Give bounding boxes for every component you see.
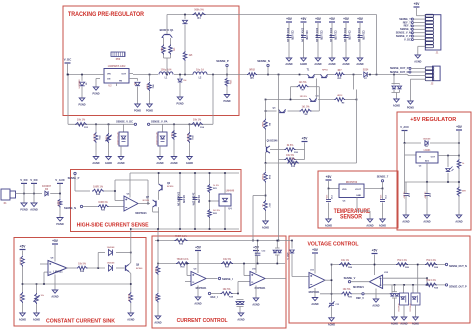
ground [328, 318, 335, 327]
diode D14 [290, 241, 295, 277]
ground [311, 298, 318, 307]
wire [417, 265, 419, 294]
svg-text:AGND: AGND [412, 323, 419, 326]
svg-text:C10 X7R: C10 X7R [291, 30, 293, 40]
svg-text:REF_V: REF_V [356, 297, 364, 300]
svg-text:C13 X7R: C13 X7R [334, 30, 336, 40]
junction [290, 99, 292, 101]
wire [130, 229, 132, 238]
svg-text:100R 1%: 100R 1% [93, 185, 104, 188]
ground [402, 215, 409, 224]
junction [194, 172, 196, 230]
junction [243, 263, 245, 265]
wire column [331, 265, 333, 303]
wire [438, 155, 459, 157]
svg-text:3R3 5%: 3R3 5% [300, 96, 307, 98]
node SENSE_I [218, 277, 233, 281]
wire [68, 75, 134, 125]
wire [174, 74, 193, 76]
svg-text:HIGH-SIDE CURRENT SENSE: HIGH-SIDE CURRENT SENSE [77, 223, 149, 229]
junction [36, 283, 38, 285]
svg-text:AGND: AGND [154, 322, 161, 325]
ground [455, 215, 462, 224]
svg-text:SENSE_V_N: SENSE_V_N [396, 31, 411, 35]
svg-text:SENSE_N: SENSE_N [64, 206, 76, 210]
resistor R11 10k [285, 155, 299, 164]
node SENSE_N [257, 59, 270, 75]
wire [197, 286, 199, 298]
junction [67, 74, 69, 76]
junction [130, 228, 132, 230]
op-amp U9 MCP6021 [191, 269, 207, 291]
node SENSE_V_DC [116, 120, 136, 126]
op-amp U12 MCP6021 [353, 272, 389, 289]
resistor R16 5k1 [92, 132, 100, 143]
svg-text:BC856: BC856 [167, 186, 174, 188]
svg-text:C8 X7R: C8 X7R [182, 195, 184, 203]
svg-text:SENSE_P: SENSE_P [216, 59, 229, 63]
junction [149, 74, 151, 76]
ground [30, 203, 38, 212]
LED D16 [446, 156, 454, 183]
svg-text:1N4148: 1N4148 [107, 262, 115, 265]
svg-text:3k 5%: 3k 5% [287, 145, 294, 147]
junction [299, 74, 301, 76]
wire [291, 86, 320, 88]
junction [67, 74, 69, 76]
wire [22, 303, 24, 313]
svg-text:BT151-S0117: BT151-S0117 [116, 133, 118, 146]
power +5V [301, 17, 308, 22]
junction [374, 264, 376, 266]
junction [237, 293, 239, 295]
svg-text:75k 0.1%: 75k 0.1% [426, 280, 436, 282]
svg-text:SENSE_I: SENSE_I [400, 27, 411, 31]
svg-text:AGND: AGND [33, 319, 40, 322]
ground [414, 55, 421, 64]
resistor R25 [19, 256, 25, 267]
resistor R6 [261, 119, 270, 130]
node V_AUX label [55, 178, 65, 183]
opto U7 BT151 [116, 132, 128, 146]
svg-text:BC846: BC846 [136, 267, 143, 270]
ground [262, 221, 269, 230]
power +5V [312, 248, 319, 253]
wire [265, 211, 267, 221]
node SENSE_N terminal [64, 205, 92, 210]
ground [156, 157, 163, 166]
wire [253, 195, 266, 197]
ground [154, 316, 161, 325]
resistor R21 1k [208, 184, 219, 193]
wire [288, 23, 290, 35]
wire [324, 279, 332, 281]
junction [212, 74, 214, 76]
svg-text:1k1 5%: 1k1 5% [299, 82, 307, 84]
inductor L1 150u [159, 69, 173, 80]
junction [157, 263, 159, 265]
wire vertical bus [278, 75, 280, 241]
wire [408, 75, 425, 77]
svg-text:100n 16V 1%: 100n 16V 1% [315, 28, 317, 42]
resistor R37 10k [221, 259, 233, 269]
junction [278, 74, 280, 76]
wire [194, 173, 196, 229]
ground [252, 298, 259, 307]
svg-text:+5V: +5V [301, 17, 308, 21]
capacitor C14 100n [343, 28, 351, 42]
wire [36, 284, 38, 293]
node SENSE_V_PA [147, 120, 167, 126]
node SENSE_OUT_N [445, 263, 467, 268]
title +5V REGULATOR [410, 117, 456, 123]
wire [23, 194, 25, 204]
wire [368, 75, 409, 76]
svg-text:SFH6156: SFH6156 [409, 303, 411, 311]
trimmer RV2 [33, 293, 44, 304]
wire [163, 124, 190, 133]
svg-text:BC856: BC856 [143, 200, 150, 202]
svg-text:+5V: +5V [414, 2, 421, 6]
op-amp U10 MCP6021 [250, 269, 266, 291]
resistor R32 75GR [175, 236, 188, 246]
svg-text:AGND: AGND [414, 61, 421, 64]
wire [210, 200, 220, 202]
wire [164, 55, 171, 75]
junction [265, 162, 267, 164]
wire [211, 293, 221, 295]
svg-text:OUT: OUT [121, 74, 126, 76]
svg-text:AGND: AGND [300, 63, 307, 66]
svg-text:PGND: PGND [146, 110, 153, 113]
block outline TRACKING PRE-REGULATOR [63, 6, 239, 116]
svg-text:100n 16V 1%: 100n 16V 1% [329, 28, 331, 42]
resistor R2 56k [169, 45, 175, 55]
svg-text:C15 X7R: C15 X7R [362, 30, 364, 40]
svg-text:10R 1%: 10R 1% [127, 294, 129, 301]
diode D7 [363, 69, 369, 81]
svg-text:15GR: 15GR [261, 174, 263, 180]
ground [393, 99, 400, 108]
wire [96, 124, 124, 133]
svg-text:100n 16V 1%: 100n 16V 1% [286, 28, 288, 42]
wire [88, 267, 106, 269]
wire [331, 306, 333, 318]
wire [303, 23, 305, 35]
block outline CURRENT CONTROL [152, 236, 286, 328]
ground [366, 219, 373, 228]
resistor R28 10k [339, 260, 353, 269]
svg-text:BT151-S0117: BT151-S0117 [155, 133, 157, 146]
wire [257, 74, 307, 76]
svg-text:75GR 0.1%: 75GR 0.1% [177, 259, 189, 261]
capacitor C15 [424, 182, 431, 215]
block outline +5V REGULATOR [397, 112, 471, 230]
wire [364, 285, 392, 294]
resistor R41 68R [457, 187, 466, 197]
block outline TEMPERATURE SENSOR [318, 171, 398, 228]
svg-text:+5V: +5V [315, 17, 322, 21]
svg-text:AGND: AGND [156, 162, 163, 165]
wire [16, 193, 43, 195]
wire [458, 131, 460, 159]
capacitor C12 100n [315, 28, 322, 42]
svg-text:REF_T: REF_T [403, 20, 412, 24]
ground [325, 219, 332, 228]
junction [209, 172, 211, 230]
wire [382, 203, 384, 220]
title CURRENT CONTROL [177, 318, 228, 324]
svg-text:PGND: PGND [79, 104, 86, 107]
resistor R4 500k [193, 9, 206, 20]
junction [224, 172, 226, 230]
svg-text:100n: 100n [379, 195, 381, 200]
junction [267, 74, 269, 76]
resistor R26 75k [396, 260, 410, 269]
junction [393, 74, 395, 76]
power +5V [315, 17, 322, 22]
resistor R31 10R [127, 292, 133, 303]
wire [314, 288, 316, 298]
junction [81, 74, 83, 76]
svg-text:AGND: AGND [252, 304, 259, 307]
ground [146, 104, 153, 113]
svg-text:V_DC: V_DC [64, 58, 72, 62]
wire [345, 74, 363, 76]
svg-text:100n 16V 1%: 100n 16V 1% [300, 28, 302, 42]
capacitor C8 [177, 192, 185, 206]
svg-text:2k 1%: 2k 1% [19, 295, 21, 301]
svg-text:AGND: AGND [117, 162, 124, 165]
svg-text:10u 1A: 10u 1A [196, 69, 204, 72]
wire [405, 142, 422, 144]
wire [317, 39, 319, 59]
wire [206, 278, 218, 280]
svg-text:+5V: +5V [312, 248, 319, 252]
junction [265, 99, 267, 112]
svg-text:OUT: OUT [431, 157, 436, 159]
wire [392, 83, 400, 85]
wire [96, 143, 121, 157]
wire [328, 74, 335, 76]
svg-text:10k 5%: 10k 5% [78, 263, 86, 265]
svg-text:75k 0.1%: 75k 0.1% [426, 260, 436, 262]
transistor Q4 [300, 95, 320, 102]
svg-text:AGND: AGND [455, 221, 462, 224]
svg-text:10k 5%: 10k 5% [286, 155, 294, 157]
power +5V [20, 245, 27, 250]
wire [138, 203, 150, 205]
wire [255, 286, 257, 299]
wire [426, 163, 428, 182]
node REF_T pin [403, 20, 426, 24]
wire [359, 23, 361, 35]
ground [20, 203, 28, 212]
svg-text:150u 1A4: 150u 1A4 [161, 69, 172, 72]
node V_DC label 2 [30, 178, 38, 183]
wire [185, 281, 191, 283]
wire [44, 272, 48, 284]
block outline HIGH-SIDE CURRENT SENSE [71, 170, 242, 232]
node V_DC terminal [64, 58, 72, 75]
wire [331, 39, 333, 59]
wire [130, 303, 132, 313]
wire [430, 142, 459, 144]
transistor Q1 BC807 [160, 15, 174, 39]
svg-text:+5V REGULATOR: +5V REGULATOR [410, 117, 456, 123]
wire collector [129, 238, 131, 265]
node V_AUX terminal [400, 125, 409, 143]
svg-text:AGND: AGND [194, 303, 201, 306]
node SENSE_I pin [400, 27, 426, 31]
junction [209, 200, 211, 202]
svg-text:SENSE_I: SENSE_I [222, 277, 233, 281]
svg-text:1N4148: 1N4148 [423, 138, 431, 141]
wire main bus 2 [133, 74, 158, 76]
wire [328, 189, 330, 200]
junction [417, 264, 419, 266]
svg-text:1k1 5%: 1k1 5% [302, 107, 310, 109]
capacitor C15 100n [357, 28, 364, 42]
wire [233, 282, 251, 294]
svg-text:4R12: 4R12 [337, 94, 343, 97]
wire [54, 245, 56, 262]
ground [379, 219, 386, 228]
svg-text:AGND: AGND [342, 63, 349, 66]
title CONSTANT CURRENT SINK [46, 318, 116, 324]
wire [160, 140, 190, 157]
svg-text:AGND: AGND [372, 305, 379, 308]
junction [226, 74, 228, 76]
svg-text:+5V: +5V [253, 246, 260, 250]
svg-text:SENSE_T: SENSE_T [377, 175, 389, 179]
resistor R33 75GR [176, 259, 189, 269]
junction [447, 155, 460, 157]
wire [405, 143, 417, 155]
node SENSE_P terminal [68, 172, 80, 191]
ground [328, 58, 335, 66]
svg-text:3k3 5%: 3k3 5% [213, 210, 220, 212]
wire [23, 263, 49, 265]
power +5V [329, 17, 336, 22]
svg-text:AGND: AGND [127, 319, 134, 322]
wire [157, 275, 159, 292]
transistor Q3 [273, 108, 286, 113]
ground [177, 97, 184, 106]
junction [97, 267, 99, 269]
svg-text:100n 16V 1%: 100n 16V 1% [177, 192, 179, 206]
wire [33, 184, 35, 194]
power +5V [357, 17, 364, 22]
wire [458, 169, 460, 187]
node SENSE_OUT_P [445, 284, 467, 289]
wire [359, 39, 361, 59]
resistor R16b [261, 172, 270, 183]
wire [288, 39, 290, 59]
wire [304, 143, 306, 150]
block outline VOLTAGE CONTROL [289, 236, 470, 323]
capacitor C9 [192, 193, 200, 206]
diode D1 SMBJ zener [78, 75, 87, 99]
svg-text:100n: 100n [325, 195, 327, 200]
svg-text:AGND: AGND [285, 63, 292, 66]
svg-text:10k 1%: 10k 1% [19, 258, 21, 265]
ground [372, 299, 379, 308]
wire [157, 303, 159, 317]
svg-text:1k 5%: 1k 5% [213, 185, 219, 187]
svg-text:1u 16V 10%: 1u 16V 10% [192, 193, 194, 206]
resistor R1 100k [57, 199, 62, 208]
svg-text:75GR 0.1%: 75GR 0.1% [175, 236, 187, 238]
wire [353, 75, 355, 90]
junction [186, 263, 188, 265]
wire [116, 252, 131, 254]
junction [356, 99, 358, 101]
junction [130, 283, 132, 285]
wire [265, 183, 267, 201]
resistor R30 10k [341, 289, 353, 298]
power +5V [195, 246, 202, 251]
transistor Q7 BC856 [143, 197, 156, 207]
svg-text:+5V: +5V [372, 249, 379, 253]
svg-text:R50: R50 [116, 58, 121, 61]
junction [426, 181, 460, 183]
junction [331, 264, 333, 295]
wire [33, 194, 35, 204]
svg-text:100k: 100k [57, 200, 59, 206]
resistor R38 10k [221, 289, 234, 299]
wire long top [332, 264, 447, 266]
node SENSE_V_P pin [396, 34, 426, 38]
wire [374, 255, 376, 276]
svg-text:100n 16V 1%: 100n 16V 1% [343, 28, 345, 42]
ground [92, 157, 99, 166]
wire [357, 198, 370, 220]
svg-text:MCP6021: MCP6021 [309, 291, 320, 294]
wire [184, 61, 186, 75]
svg-text:AGND: AGND [423, 221, 430, 224]
wire [404, 155, 406, 193]
resistor R17b [261, 200, 270, 211]
svg-text:15GR: 15GR [261, 121, 263, 127]
wire [303, 39, 305, 59]
wire [209, 173, 211, 229]
svg-text:V_AUX: V_AUX [55, 178, 65, 182]
svg-text:C14 X7R: C14 X7R [348, 30, 351, 40]
node SENSE_T terminal [377, 175, 389, 189]
title TRACKING PRE-REGULATOR [68, 11, 144, 18]
node REF_I pin [404, 24, 426, 28]
zener D15 pair [390, 285, 398, 317]
node net label V_OUT [288, 252, 290, 260]
opto U12 BT151 [155, 132, 167, 146]
svg-text:AGND: AGND [30, 208, 38, 212]
svg-text:500k 5%: 500k 5% [194, 9, 204, 12]
junction [179, 74, 181, 76]
svg-text:V_OUT: V_OUT [288, 252, 290, 260]
svg-text:SMBJ5V0: SMBJ5V0 [78, 80, 80, 90]
svg-text:ON: ON [107, 79, 111, 81]
svg-text:75GR: 75GR [154, 295, 156, 301]
resistor R34 75k [425, 280, 439, 289]
wire [426, 278, 428, 285]
wire vertical right [356, 90, 358, 164]
svg-text:AGND: AGND [400, 323, 407, 326]
svg-text:+5V: +5V [302, 137, 309, 141]
svg-text:PGND: PGND [407, 107, 414, 110]
resistor R3 45k [160, 45, 166, 55]
svg-text:10k 1%: 10k 1% [77, 119, 86, 122]
